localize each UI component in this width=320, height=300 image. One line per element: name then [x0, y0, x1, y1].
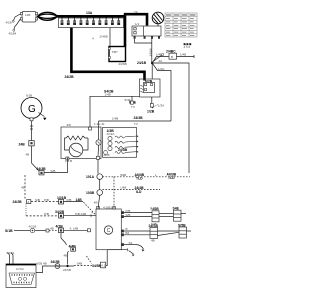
wire to node 4/1B4 — [9, 19, 21, 36]
row S/1B — [5, 225, 49, 233]
thick feed wire from fuse box down-right — [65, 28, 145, 81]
svg-text:B4B: B4B — [121, 173, 127, 177]
alternator stub — [157, 24, 159, 26]
svg-text:4/1B4: 4/1B4 — [9, 32, 17, 36]
svg-text:103B: 103B — [86, 191, 95, 195]
svg-text:P/B: P/B — [67, 198, 72, 202]
component 7/B7 box — [108, 47, 126, 67]
relay 6/2B — [140, 63, 161, 97]
svg-text:S4B: S4B — [77, 262, 83, 266]
node junction right — [151, 62, 153, 64]
svg-text:24/5B: 24/5B — [63, 268, 71, 272]
rail down from frame edge through connectors — [86, 121, 102, 209]
motor circle — [69, 143, 83, 157]
svg-text:C7C2: C7C2 — [7, 251, 15, 255]
bus wire 13A — [57, 11, 125, 16]
battery / junction unit box — [132, 22, 161, 39]
svg-text:1/4B: 1/4B — [112, 117, 118, 121]
svg-text:24/SB: 24/SB — [149, 224, 159, 228]
svg-text:24/1B: 24/1B — [137, 61, 147, 65]
svg-text:S4: S4 — [129, 241, 133, 245]
svg-text:APB: APB — [104, 153, 110, 157]
svg-text:4/1B: 4/1B — [6, 21, 12, 25]
svg-text:TLD: TLD — [168, 176, 175, 180]
resistor — [66, 136, 88, 140]
instrument cluster box — [103, 128, 139, 158]
thick wire A (top) — [124, 10, 147, 47]
fuses — [61, 16, 121, 25]
svg-text:S/B: S/B — [35, 198, 40, 202]
svg-text:1/1: 1/1 — [135, 22, 140, 26]
svg-text:4/21B: 4/21B — [29, 225, 37, 229]
curved branch from load box — [124, 241, 145, 252]
motor unit 3/8 box — [61, 123, 101, 163]
svg-text:4B: 4B — [26, 153, 30, 157]
dashed row TLD y177 — [114, 172, 190, 180]
svg-text:1 4 B: 1 4 B — [65, 159, 72, 163]
svg-text:C: C — [107, 228, 111, 234]
load box bottom outlet — [106, 248, 135, 265]
ECU feed wires — [7, 251, 15, 264]
svg-text:U4B: U4B — [121, 186, 127, 190]
connector pair group 2 — [124, 223, 191, 242]
branch 1/4G / frame edge — [152, 63, 171, 121]
dotted drop + dashed row y216 — [26, 204, 59, 217]
svg-text:2A: 2A — [159, 59, 163, 63]
dashed ground run (left) — [13, 175, 59, 204]
svg-text:S/1B: S/1B — [5, 229, 13, 233]
svg-text:1/4B: 1/4B — [156, 53, 162, 57]
svg-text:TV: TV — [131, 105, 135, 109]
svg-text:1/3A: 1/3A — [158, 104, 164, 108]
connector row 3 (y230.5) — [49, 224, 91, 264]
wire 1/2B below relay — [147, 97, 155, 114]
wire link under battery — [135, 39, 164, 62]
legend table — [165, 13, 197, 37]
svg-text:P/B: P/B — [44, 198, 49, 202]
svg-text:4B: 4B — [21, 186, 25, 190]
svg-text:4.1: 4.1 — [101, 263, 106, 267]
svg-text:7A: 7A — [134, 10, 138, 14]
wire to node 4/1B — [6, 14, 21, 25]
harness lens (bundled wires) — [38, 12, 58, 20]
svg-text:1/4B: 1/4B — [180, 53, 186, 57]
connector row 1 (y202) — [59, 198, 97, 215]
wire 24/1B from battery down — [137, 39, 153, 65]
svg-text:3/8: 3/8 — [67, 123, 72, 127]
svg-text:24/3B: 24/3B — [118, 148, 128, 152]
svg-text:S/5B: S/5B — [178, 223, 186, 227]
svg-text:AC3A: AC3A — [107, 132, 115, 136]
svg-text:B4: B4 — [126, 231, 130, 235]
connector box 1/2 (top-left) — [20, 12, 37, 23]
connector 5/4E — [125, 96, 134, 104]
svg-text:24/1B: 24/1B — [149, 48, 153, 56]
ECU box (bottom-left) — [6, 264, 36, 288]
load center box (bottom middle) — [96, 205, 121, 249]
svg-text:4B: 4B — [64, 253, 68, 257]
connector pair group 1 — [124, 207, 186, 226]
svg-text:?4SB: ?4SB — [150, 207, 159, 211]
svg-text:101A: 101A — [86, 175, 95, 179]
svg-text:6/1B: 6/1B — [26, 94, 32, 98]
svg-text:7/B7: 7/B7 — [112, 50, 119, 54]
svg-text:4B: 4B — [50, 227, 54, 231]
svg-text:4 S/B1: 4 S/B1 — [103, 205, 112, 209]
branch 1/4B with inline unit 2/4BC — [152, 50, 194, 63]
svg-text:13A: 13A — [86, 11, 93, 15]
indicator circles — [108, 136, 112, 140]
svg-text:24/2B: 24/2B — [13, 200, 23, 204]
bottom junction row y266 — [45, 256, 106, 272]
svg-text:TLD: TLD — [136, 177, 143, 181]
svg-text:12B: 12B — [25, 13, 30, 17]
svg-text:S4E: S4E — [173, 207, 180, 211]
svg-text:4B: 4B — [151, 239, 155, 243]
svg-text:1/4G: 1/4G — [158, 67, 165, 71]
svg-text:1.4 x.41: 1.4 x.41 — [94, 122, 105, 126]
svg-text:B: B — [171, 55, 173, 59]
svg-text:P/B A4B: P/B A4B — [75, 212, 86, 216]
svg-text:S/B: S/B — [126, 213, 131, 217]
arrow — [39, 113, 45, 117]
svg-text:2/2SB: 2/2SB — [119, 62, 127, 66]
frame bottom edge + labels — [94, 101, 171, 127]
svg-text:4/2B 4B: 4/2B 4B — [36, 262, 47, 266]
ECU right outlet — [36, 262, 47, 273]
svg-text:1/4B: 1/4B — [105, 93, 111, 97]
svg-text:2/4BC: 2/4BC — [166, 50, 176, 54]
svg-text:2/4SB: 2/4SB — [100, 35, 108, 39]
svg-text:1/2B: 1/2B — [147, 110, 155, 114]
small marks 4 5 6 — [184, 43, 192, 49]
svg-text:4 5 6: 4 5 6 — [184, 45, 191, 49]
fuse box 13A — [59, 18, 124, 28]
svg-text:P/B: P/B — [44, 212, 49, 216]
svg-text:4. L4B: 4. L4B — [70, 227, 79, 231]
svg-text:4B: 4B — [94, 200, 98, 204]
alternator circle (hatched) — [152, 12, 164, 24]
load box output stubs — [121, 211, 124, 246]
svg-text:S/B: S/B — [51, 169, 56, 173]
connector trapezoid — [9, 273, 35, 285]
wire from relay area to motor (S4/2B) — [89, 90, 140, 130]
generator circle G — [21, 94, 47, 121]
drop to 4/4B — [61, 233, 67, 245]
svg-text:13/1B: 13/1B — [57, 196, 67, 200]
pins below — [134, 36, 136, 39]
svg-text:C7C2: C7C2 — [16, 267, 24, 271]
svg-text:34/2B: 34/2B — [51, 260, 61, 264]
connector row 2 (y216) — [55, 210, 96, 218]
branch 2A to right rail — [152, 59, 189, 173]
svg-text:14B: 14B — [76, 198, 83, 202]
wire 2/4SB drop — [92, 28, 110, 47]
dashed row ILD y189.5 — [114, 186, 160, 194]
svg-text:5/4E: 5/4E — [125, 98, 131, 102]
svg-text:TV: TV — [134, 122, 138, 126]
svg-text:G: G — [28, 104, 36, 115]
coil rows — [115, 136, 139, 139]
svg-text:24B: 24B — [19, 142, 26, 146]
svg-text:ILD: ILD — [136, 190, 142, 194]
svg-text:24/2B: 24/2B — [65, 75, 75, 79]
svg-text:24/3B: 24/3B — [134, 116, 144, 120]
generator output chain — [19, 121, 68, 175]
cluster drop dashed x114 — [103, 177, 115, 209]
